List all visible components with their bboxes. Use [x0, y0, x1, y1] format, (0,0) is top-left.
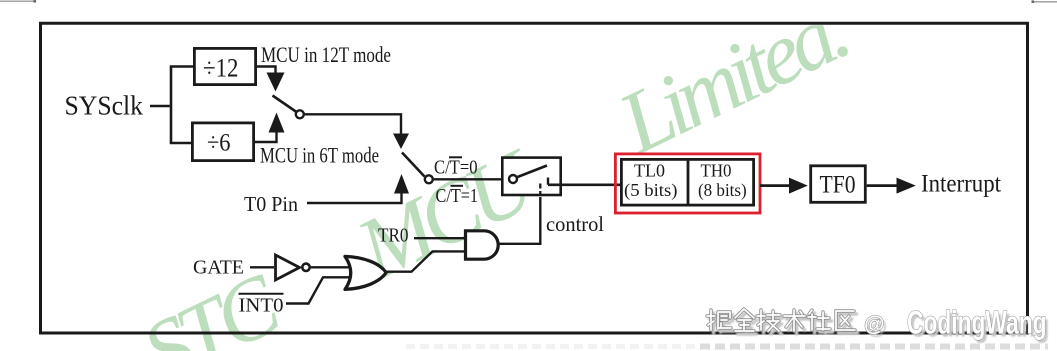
top-right gray line tick [1032, 0, 1035, 3]
box div6 [192, 123, 253, 161]
overline T of C/T=1 [451, 185, 464, 187]
switch1 contact circle [296, 110, 304, 118]
svg-text:TR0: TR0 [378, 225, 409, 247]
svg-text:TH0: TH0 [701, 161, 732, 181]
control dashed line [539, 184, 541, 197]
svg-text:@: @ [864, 313, 884, 336]
control box pivot circle [509, 175, 517, 183]
inverter U1 triangle [276, 255, 300, 280]
svg-text:(5 bits): (5 bits) [624, 180, 678, 200]
svg-text:C/T=1: C/T=1 [436, 185, 479, 207]
wire OR out to AND [384, 251, 464, 271]
hanzi shadow [710, 312, 858, 334]
svg-text:GATE: GATE [193, 257, 244, 279]
top-left gray line tick [34, 0, 37, 3]
svg-text:SYSclk: SYSclk [65, 91, 144, 121]
wire T0 pin [307, 194, 402, 204]
svg-text:Interrupt: Interrupt [921, 170, 1001, 197]
box div12 [194, 48, 255, 84]
box TF0 [811, 166, 866, 203]
registers divider [687, 159, 690, 205]
wire to div12 [170, 65, 193, 67]
at CodingWang shadow [867, 308, 1050, 344]
wire div12 out [256, 67, 276, 75]
control box lever [518, 166, 548, 178]
hanzi white core [707, 309, 855, 331]
wire control box to TL0 [548, 183, 621, 186]
wire GATE to inverter [250, 266, 274, 268]
arrow down to switch2 [393, 134, 409, 150]
svg-text:÷6: ÷6 [207, 130, 231, 157]
wire branch vertical [170, 67, 173, 144]
bottom faint strip left [406, 344, 700, 349]
overline T of C/T=0 [449, 156, 462, 158]
svg-text:÷12: ÷12 [203, 54, 239, 83]
inverter bubble [302, 264, 309, 271]
svg-text:CodingWang: CodingWang [907, 305, 1047, 341]
svg-text:MCU in 6T mode: MCU in 6T mode [260, 143, 379, 168]
AND gate [466, 231, 499, 259]
svg-text:INT0: INT0 [239, 295, 284, 317]
svg-text:TL0: TL0 [634, 161, 665, 181]
svg-text:C/T=0: C/T=0 [434, 157, 478, 179]
wire to div6 [170, 142, 192, 144]
OR gate [345, 256, 386, 289]
arrow to Interrupt [897, 178, 916, 194]
top-right gray line [1032, 1, 1057, 3]
wire inverter to OR [311, 266, 350, 268]
svg-text:TF0: TF0 [820, 171, 856, 198]
bottom watermark [707, 305, 1049, 344]
wire INT0 to OR [286, 277, 350, 303]
wire div6 out [254, 132, 277, 142]
bottom faint strip right [700, 344, 1048, 350]
svg-text:control: control [546, 212, 604, 236]
wire TR0 to AND [414, 237, 464, 239]
wire AND out to control box [498, 197, 541, 244]
control box [502, 158, 560, 195]
red highlight box [615, 154, 760, 213]
overline INT0 [239, 293, 284, 295]
top-left gray line [0, 0, 36, 2]
registers box [621, 159, 753, 205]
wire switch2 to control box [434, 178, 502, 180]
wire registers to TF0 [760, 184, 790, 187]
wire TF0 out [867, 184, 897, 187]
svg-text:(8 bits): (8 bits) [698, 180, 747, 200]
control box contact stub [547, 178, 549, 185]
svg-text:T0 Pin: T0 Pin [244, 192, 298, 216]
arrow down from div12 [267, 73, 285, 92]
switch2 lever [402, 153, 425, 177]
switch2 contact circle [425, 175, 433, 183]
wire switch1 to switch2 [305, 114, 402, 134]
svg-text:MCU in 12T mode: MCU in 12T mode [261, 42, 391, 67]
wire SYSclk stub [150, 105, 170, 107]
arrow up from T0 pin [394, 174, 409, 194]
arrow up from div6 [269, 113, 285, 133]
switch1 lever [273, 96, 297, 113]
arrow into TF0 [789, 178, 808, 194]
hanzi gray outline [707, 309, 855, 331]
